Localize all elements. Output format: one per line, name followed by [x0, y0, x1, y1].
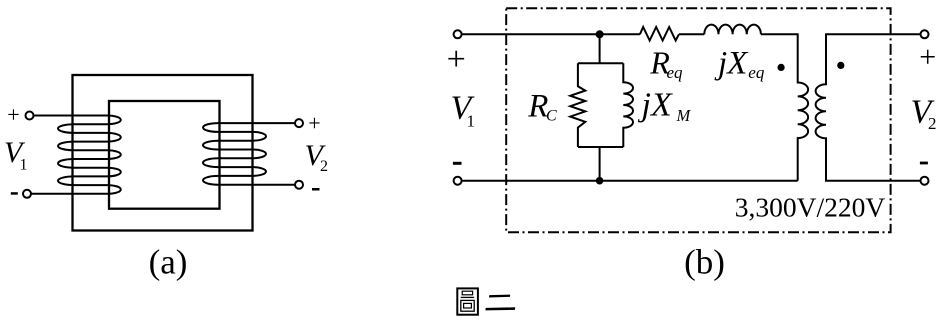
- wire bottom rail left: [462, 180, 798, 182]
- polarity dot secondary: [837, 62, 844, 69]
- ideal transformer secondary coil with wires to right terminals: [816, 34, 922, 180]
- node junction dot top: [596, 30, 604, 38]
- character 二: [485, 295, 515, 311]
- terminal - primary (a): [23, 190, 31, 198]
- svg-text:3,300V/220V: 3,300V/220V: [735, 192, 886, 223]
- inductor jXM (vertical): [623, 63, 633, 147]
- svg-text:2: 2: [320, 158, 328, 175]
- wire between Req and jXeq: [679, 33, 704, 35]
- terminal + primary (a): [26, 112, 34, 120]
- inductor jXeq: [704, 25, 761, 35]
- terminal - left (b): [454, 177, 462, 185]
- label - left (b): [453, 162, 462, 165]
- svg-text:1: 1: [20, 156, 28, 173]
- resistor Req: [640, 27, 679, 41]
- wire shunt box bottom: [578, 146, 623, 148]
- svg-text:+: +: [308, 111, 320, 136]
- svg-text:+: +: [7, 102, 19, 127]
- core inner rectangle (window): [109, 101, 220, 209]
- terminal - right (b): [921, 177, 929, 185]
- svg-text:jX: jX: [714, 46, 749, 82]
- svg-text:(a): (a): [149, 243, 188, 282]
- terminal + secondary (a): [295, 119, 303, 127]
- terminal + left (b): [454, 30, 462, 38]
- wire top rail left: [462, 33, 640, 35]
- terminal - secondary (a): [295, 181, 303, 189]
- svg-text:2: 2: [928, 114, 937, 133]
- svg-text:+: +: [447, 41, 466, 78]
- secondary winding of (a) with + and - lead wires: [203, 123, 295, 185]
- svg-text:M: M: [676, 106, 692, 125]
- polarity dot primary: [778, 64, 785, 71]
- primary winding of (a) with + and - lead wires: [31, 116, 120, 194]
- character 圖: [457, 288, 478, 314]
- wire from shunt box down to bottom rail: [599, 147, 601, 181]
- svg-text:jX: jX: [638, 87, 673, 124]
- label - right (b): [920, 162, 928, 165]
- svg-text:+: +: [919, 41, 936, 74]
- label - (a) primary: [11, 192, 18, 195]
- terminal + right (b): [921, 30, 929, 38]
- resistor RC (vertical): [570, 63, 585, 147]
- svg-text:C: C: [546, 108, 557, 125]
- wire shunt box top: [578, 62, 623, 64]
- label - (a) secondary: [312, 188, 320, 191]
- wire from top node down to shunt box: [599, 34, 601, 63]
- node junction dot bottom: [596, 177, 604, 185]
- wire from jXeq to ideal transformer primary, primary coil U1: [761, 34, 808, 180]
- dash-dot boundary box: [506, 8, 890, 232]
- svg-text:1: 1: [467, 111, 476, 130]
- svg-text:eq: eq: [667, 63, 684, 82]
- svg-text:eq: eq: [748, 63, 765, 82]
- core outer rectangle: [73, 75, 253, 231]
- svg-text:(b): (b): [684, 243, 725, 282]
